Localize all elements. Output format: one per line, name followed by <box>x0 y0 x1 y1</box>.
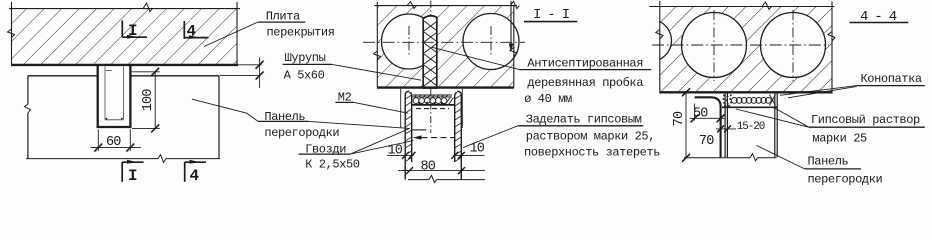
svg-text:Гипсовый раствор: Гипсовый раствор <box>811 113 920 127</box>
section mark I (top) <box>122 21 147 38</box>
dimension 100 <box>132 68 160 133</box>
svg-text:деревянная пробка: деревянная пробка <box>527 76 643 90</box>
dim 50 <box>690 104 725 123</box>
section mark I (bottom) <box>122 162 143 182</box>
panel end double line <box>724 94 726 158</box>
svg-text:100: 100 <box>141 89 156 112</box>
svg-text:50: 50 <box>693 107 708 122</box>
slab groove side stubs <box>400 89 402 128</box>
adjacent slab edge L profile <box>695 97 721 157</box>
wooden plug <box>423 16 437 88</box>
centerlines <box>652 44 829 46</box>
svg-text:15-20: 15-20 <box>737 121 765 133</box>
svg-text:80: 80 <box>421 159 436 174</box>
panel bottom break line <box>26 155 220 163</box>
dim 10 right <box>451 152 484 159</box>
svg-text:I - I: I - I <box>533 7 569 23</box>
svg-text:К 2,5х50: К 2,5х50 <box>305 158 360 172</box>
label: caulking <box>780 72 925 98</box>
panel bottom break line <box>408 175 485 182</box>
hollow core circle left <box>682 13 747 78</box>
label: floor slab <box>204 9 335 46</box>
svg-text:поверхность затереть: поверхность затереть <box>524 146 660 160</box>
break marks right slab <box>762 2 772 10</box>
joint recess double line with ties <box>413 94 453 96</box>
slab edges <box>649 1 835 94</box>
partition panel top edge <box>25 76 220 159</box>
label: gypsum mortar grade 25 <box>736 108 925 146</box>
dim 80 <box>398 167 485 174</box>
dim 10 left <box>387 152 416 159</box>
floor slab (hatched) <box>9 2 240 66</box>
break mark on slab left edge <box>8 29 15 38</box>
slab hatched body <box>377 6 514 88</box>
svg-text:перегородки: перегородки <box>264 126 339 140</box>
label: antiseptic wooden plug <box>432 47 652 106</box>
screw heads <box>418 102 443 104</box>
svg-text:Шурупы: Шурупы <box>285 51 326 65</box>
section mark 4 (bottom) <box>185 162 206 182</box>
label: M2 <box>335 91 408 114</box>
svg-text:4: 4 <box>190 167 200 185</box>
svg-text:60: 60 <box>106 135 121 150</box>
svg-text:Плита: Плита <box>266 9 300 23</box>
plug centerline <box>430 1 432 17</box>
right channel <box>455 91 462 179</box>
label: nails <box>299 128 414 171</box>
label: partition panel (right) <box>756 145 882 186</box>
panel top edge <box>722 106 778 108</box>
hollow core circle right <box>463 14 519 70</box>
dim 70 vertical chain <box>682 88 690 162</box>
svg-text:Антисептированная: Антисептированная <box>527 57 643 71</box>
svg-text:А 5х60: А 5х60 <box>284 68 325 82</box>
label: seal with gypsum mortar <box>463 113 660 160</box>
groove / channel U (thick) <box>97 65 132 127</box>
svg-text:70: 70 <box>699 134 714 149</box>
vertical centerlines in cores <box>408 26 410 57</box>
section mark 4 (top) <box>184 21 208 39</box>
gypsum stipple patch <box>723 94 732 107</box>
left channel M2 <box>405 91 412 179</box>
hollow core circle left <box>382 14 437 69</box>
section 4-4 trace line with down arrow <box>510 1 512 45</box>
slab edges <box>375 2 518 88</box>
svg-text:I: I <box>128 22 137 40</box>
panel tongue inside groove <box>105 67 123 120</box>
small right gap dimension <box>220 58 264 89</box>
bottom break line <box>684 154 777 161</box>
hidden nail row upper <box>416 108 449 110</box>
dimension 60 <box>91 129 141 151</box>
svg-text:раствором марки 25,: раствором марки 25, <box>526 130 655 144</box>
dim 15-20 <box>716 125 736 132</box>
svg-text:ø 40 мм: ø 40 мм <box>524 92 572 106</box>
label: screws <box>283 51 422 83</box>
label: partition panel (left) <box>192 99 410 140</box>
horizontal centerline of cores <box>363 41 525 43</box>
svg-text:Конопатка: Конопатка <box>861 72 922 86</box>
svg-text:Панель: Панель <box>808 155 849 169</box>
break mark on slab top edge <box>143 3 153 11</box>
panel left edge <box>27 76 29 104</box>
svg-text:I: I <box>128 167 137 185</box>
svg-text:4: 4 <box>187 23 197 41</box>
leader tail solid <box>412 129 426 131</box>
panel right edge <box>218 76 220 159</box>
panel right edge double <box>774 94 776 158</box>
hollow core circle right <box>761 13 826 78</box>
hidden nail row lower with arrow <box>422 137 456 139</box>
partial core at break edge <box>630 20 672 62</box>
svg-text:Заделать гипсовым: Заделать гипсовым <box>526 113 642 127</box>
svg-text:перегородки: перегородки <box>808 173 883 187</box>
caulking coils <box>731 95 775 106</box>
panel top edge <box>412 104 455 106</box>
caulking coils <box>413 97 453 105</box>
svg-text:70: 70 <box>672 111 687 126</box>
svg-text:марки 25: марки 25 <box>812 132 867 146</box>
svg-text:10: 10 <box>470 141 485 156</box>
svg-text:перекрытия: перекрытия <box>267 26 335 40</box>
break marks middle slab <box>407 2 417 9</box>
